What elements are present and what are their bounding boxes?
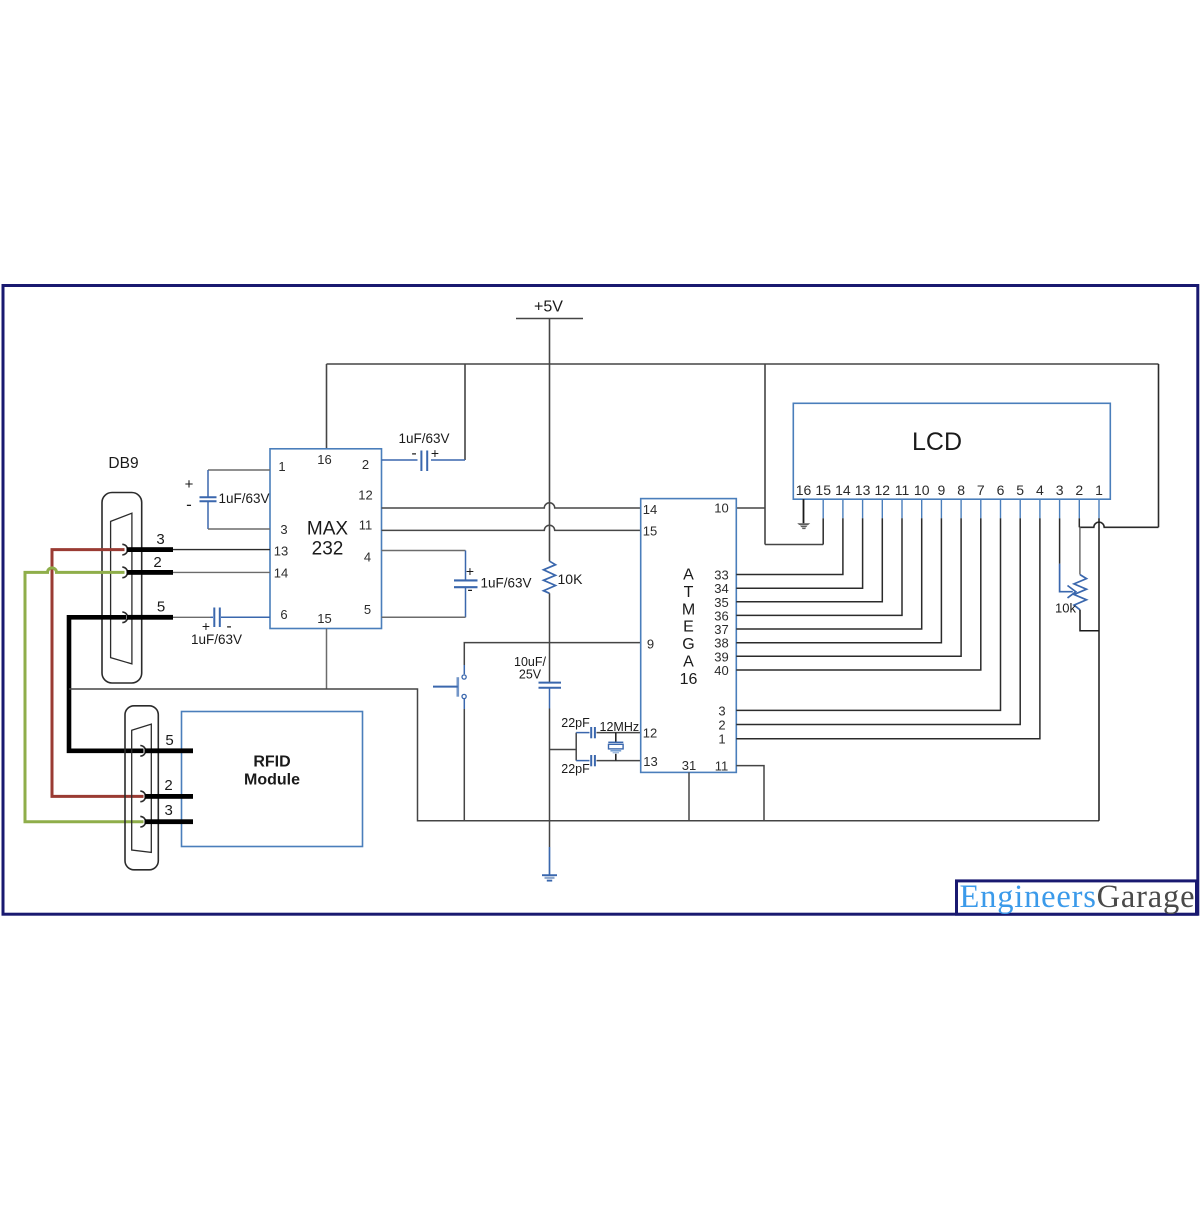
capacitor C1 1uF/63V (U1 pins 1-3) <box>185 470 270 529</box>
svg-text:15: 15 <box>815 482 831 498</box>
pushbutton S1 reset <box>433 675 466 699</box>
resistor R1 10K <box>544 561 584 593</box>
svg-text:232: 232 <box>312 539 344 560</box>
svg-text:DB9: DB9 <box>108 455 138 472</box>
svg-text:RFID: RFID <box>253 754 290 771</box>
svg-text:2: 2 <box>718 718 725 733</box>
U1 MAX232 name label <box>307 519 349 560</box>
wire ATMEGA pin38 to LCD pin9 <box>736 518 941 642</box>
wire ATMEGA pin31 to ground bus <box>688 772 690 820</box>
svg-text:+: + <box>185 476 194 493</box>
svg-text:4: 4 <box>1036 482 1044 498</box>
wire +5V main vertical to R1 <box>549 364 551 561</box>
svg-text:3: 3 <box>718 703 725 718</box>
J2 pin 2 <box>140 777 193 802</box>
svg-text:14: 14 <box>274 566 288 581</box>
svg-text:+: + <box>431 445 439 461</box>
svg-text:10K: 10K <box>558 571 584 587</box>
svg-text:15: 15 <box>317 611 331 626</box>
svg-text:1uF/63V: 1uF/63V <box>191 632 242 647</box>
wire U1 pin11 to ATMEGA pin15 (hop at +5V line) <box>382 525 641 530</box>
svg-text:2: 2 <box>1075 482 1083 498</box>
svg-text:E: E <box>683 619 694 636</box>
wire ATMEGA pin11 to ground bus <box>736 766 764 821</box>
svg-text:13: 13 <box>274 544 288 559</box>
J2 pin 5 <box>140 732 193 756</box>
svg-text:+: + <box>466 563 474 579</box>
svg-text:2: 2 <box>164 777 172 794</box>
wire R2 bottom to ground <box>1080 610 1099 631</box>
svg-text:12MHz: 12MHz <box>600 720 640 734</box>
svg-text:5: 5 <box>1016 482 1024 498</box>
svg-text:1uF/63V: 1uF/63V <box>481 576 532 591</box>
svg-text:16: 16 <box>796 482 812 498</box>
wire ATMEGA pin40 to LCD pin7 <box>736 518 981 670</box>
svg-text:13: 13 <box>855 482 871 498</box>
connector J1 DB9 shell <box>102 493 142 684</box>
ground arrow at LCD pin16 <box>797 523 810 529</box>
svg-text:40: 40 <box>714 663 728 678</box>
svg-text:1: 1 <box>1095 482 1103 498</box>
wire ATMEGA pin36 to LCD pin11 <box>736 518 902 615</box>
svg-text:5: 5 <box>157 599 165 616</box>
wire rail to ATMEGA pin 10 <box>736 364 765 545</box>
wire red J1 pin3 to J2 pin2 <box>52 550 144 797</box>
svg-text:16: 16 <box>317 452 331 467</box>
svg-text:9: 9 <box>647 636 654 651</box>
svg-text:22pF: 22pF <box>561 762 590 776</box>
wire J1 pin2 to U1 pin14 <box>173 571 270 573</box>
wire rail to C2 <box>464 364 466 460</box>
svg-text:T: T <box>684 584 694 601</box>
wire rail to LCD pin 2 (hop over pin1 wire) <box>1079 364 1158 527</box>
LCD module box <box>793 403 1110 499</box>
RFID Module U3 box <box>182 712 363 847</box>
wire LCD pin3 to R2 wiper (arrow) <box>1060 518 1076 598</box>
wire U1 pin12 to ATMEGA pin14 (hop at +5V line) <box>382 503 641 508</box>
LCD pin stubs <box>823 499 1099 518</box>
wire ATMEGA pin1 to LCD pin4 <box>736 518 1040 738</box>
svg-text:+5V: +5V <box>534 299 563 316</box>
U2 pin numbers <box>643 501 729 774</box>
svg-text:11: 11 <box>895 482 910 498</box>
svg-text:9: 9 <box>938 482 946 498</box>
svg-text:5: 5 <box>165 732 173 749</box>
J1 pin 5 <box>122 599 173 623</box>
U1 pin numbers <box>274 452 373 626</box>
svg-text:15: 15 <box>643 524 657 539</box>
wire ATMEGA pin2 to LCD pin5 <box>736 518 1020 724</box>
IC U2 ATMEGA16 box <box>641 499 737 773</box>
connector J2 DB9 shell (RFID) <box>125 706 158 870</box>
svg-text:LCD: LCD <box>912 428 962 456</box>
capacitor C2 1uF/63V (U1 pin 2 to +5V) <box>382 431 466 471</box>
wire crystal node to ground line <box>550 733 577 761</box>
wire LCD pin2 to R2 top <box>1079 527 1081 574</box>
capacitor C5 10uF/25V <box>514 655 561 688</box>
svg-text:3: 3 <box>1056 482 1064 498</box>
LCD pin numbers 16..1 <box>796 482 1103 498</box>
ground symbol <box>542 875 557 880</box>
wire U1 pin15 to ground bus <box>326 629 328 690</box>
wire ATMEGA pin37 to LCD pin10 <box>736 518 921 629</box>
svg-text:25V: 25V <box>519 668 542 682</box>
IC U1 MAX232 box <box>270 449 382 629</box>
wire rail to MAX232 pin 16 <box>326 364 328 449</box>
J1 pin 2 <box>122 554 173 578</box>
svg-text:Module: Module <box>244 772 300 789</box>
wire ATMEGA pin35 to LCD pin12 <box>736 518 882 602</box>
wire black ground J1 pin5 to J2 pin5 <box>69 617 144 751</box>
capacitor C6 22pF (XTAL1) <box>561 716 640 738</box>
wire J1 pin3 to U1 pin13 <box>173 549 270 551</box>
svg-text:14: 14 <box>835 482 851 498</box>
wire LCD pin1 to ground bus <box>1098 518 1100 820</box>
svg-text:16: 16 <box>680 671 698 688</box>
svg-text:M: M <box>682 601 695 618</box>
svg-text:1: 1 <box>718 732 725 747</box>
svg-text:2: 2 <box>362 457 369 472</box>
wire S1 to ground bus <box>463 698 465 709</box>
wire LCD pin2 stem <box>1078 518 1080 527</box>
wire green J1 pin2 to J2 pin3 (hop over red) <box>25 568 144 822</box>
svg-text:6: 6 <box>997 482 1005 498</box>
svg-text:12: 12 <box>643 725 657 740</box>
svg-text:2: 2 <box>153 554 161 571</box>
wire LCD pin16 to ground arrow <box>803 499 805 523</box>
svg-text:31: 31 <box>682 758 696 773</box>
crystal X1 12MHz <box>600 720 640 761</box>
svg-text:-: - <box>186 495 192 514</box>
logo EngineersGarage <box>957 879 1197 915</box>
wire ATMEGA pin34 to LCD pin13 <box>736 518 862 588</box>
wire LCD pin15 stem <box>822 518 824 544</box>
svg-text:MAX: MAX <box>307 519 349 540</box>
wire C5 to ground <box>549 689 551 709</box>
power +5V symbol <box>516 299 583 365</box>
svg-text:G: G <box>682 636 694 653</box>
wire LCD pin 15 to +5V <box>765 544 823 546</box>
svg-text:6: 6 <box>280 607 287 622</box>
capacitor C3 1uF/63V (U1 pins 4-5) <box>382 551 532 618</box>
wire ATMEGA pin39 to LCD pin8 <box>736 518 961 656</box>
wire ATMEGA pin33 to LCD pin14 <box>736 518 843 574</box>
svg-text:14: 14 <box>643 502 657 517</box>
wire ground bus <box>69 689 1099 821</box>
svg-text:12: 12 <box>875 482 891 498</box>
svg-text:1uF/63V: 1uF/63V <box>398 431 449 446</box>
svg-text:EngineersGarage: EngineersGarage <box>960 879 1195 915</box>
svg-text:5: 5 <box>364 602 371 617</box>
svg-text:10: 10 <box>714 501 728 516</box>
svg-text:-: - <box>411 445 416 462</box>
wire ATMEGA pin3 to LCD pin6 <box>736 518 1000 710</box>
svg-text:-: - <box>467 582 472 599</box>
svg-text:10: 10 <box>914 482 930 498</box>
J2 pin 3 <box>140 802 193 827</box>
svg-text:A: A <box>683 567 694 584</box>
svg-text:11: 11 <box>359 518 373 533</box>
potentiometer R2 10k <box>1055 575 1086 616</box>
svg-text:10k: 10k <box>1055 601 1076 616</box>
wire +5V rail <box>327 363 1159 365</box>
svg-text:11: 11 <box>715 759 729 774</box>
wire R1 to C5 <box>549 593 551 682</box>
svg-text:22pF: 22pF <box>561 716 590 730</box>
U2 ATMEGA16 name label <box>680 567 698 688</box>
svg-text:4: 4 <box>364 550 371 565</box>
svg-text:3: 3 <box>280 522 287 537</box>
capacitor C7 22pF (XTAL2) <box>561 755 640 776</box>
svg-text:1: 1 <box>278 459 285 474</box>
svg-text:8: 8 <box>957 482 965 498</box>
svg-text:3: 3 <box>156 531 164 548</box>
wire ATMEGA pin9 reset <box>464 643 640 665</box>
svg-text:3: 3 <box>165 802 173 819</box>
capacitor C4 1uF/63V (J1 pin 5 to U1 pin 6) <box>173 608 270 648</box>
svg-text:13: 13 <box>643 754 657 769</box>
J1 pin 3 <box>122 531 173 555</box>
svg-text:12: 12 <box>358 488 372 503</box>
svg-text:1uF/63V: 1uF/63V <box>219 491 270 506</box>
svg-text:7: 7 <box>977 482 985 498</box>
svg-text:A: A <box>683 654 694 671</box>
